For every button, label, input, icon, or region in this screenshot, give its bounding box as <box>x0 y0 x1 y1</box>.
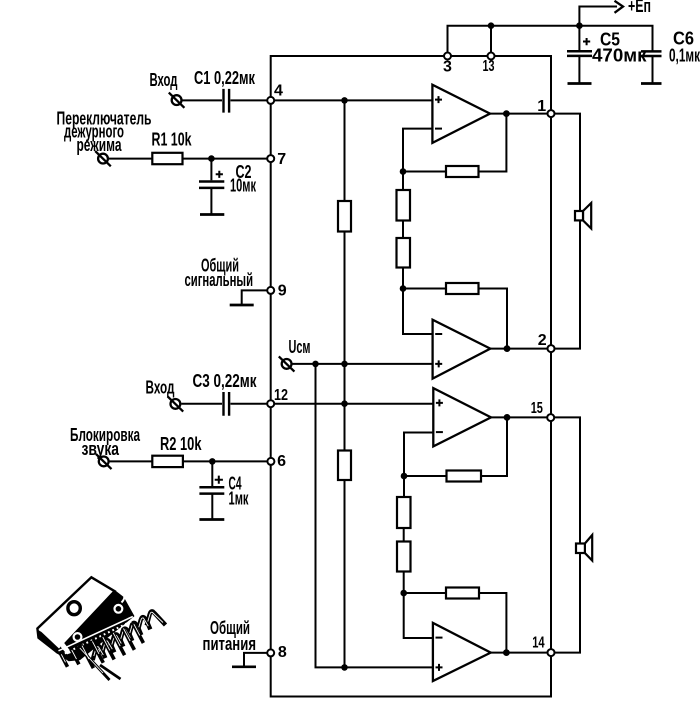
svg-text:+Еп: +Еп <box>628 0 651 16</box>
svg-text:режима: режима <box>77 135 123 155</box>
svg-text:6: 6 <box>277 453 286 470</box>
svg-text:470мк: 470мк <box>592 46 648 66</box>
svg-text:C1 0,22мк: C1 0,22мк <box>194 68 256 88</box>
svg-text:Вход: Вход <box>146 378 175 398</box>
svg-text:R2 10k: R2 10k <box>160 434 202 454</box>
svg-text:9: 9 <box>278 283 287 300</box>
svg-text:4: 4 <box>274 83 283 100</box>
svg-text:C3 0,22мк: C3 0,22мк <box>193 371 258 391</box>
svg-text:7: 7 <box>277 151 286 168</box>
svg-text:14: 14 <box>532 635 544 652</box>
svg-text:сигнальный: сигнальный <box>185 270 254 290</box>
svg-text:Uсм: Uсм <box>289 337 311 357</box>
svg-text:13: 13 <box>483 58 495 75</box>
svg-text:10мк: 10мк <box>230 175 257 195</box>
svg-text:Вход: Вход <box>150 70 178 90</box>
svg-text:15: 15 <box>531 400 543 417</box>
svg-text:питания: питания <box>203 634 257 654</box>
svg-text:звука: звука <box>82 439 120 459</box>
svg-text:12: 12 <box>274 387 288 404</box>
svg-text:3: 3 <box>443 59 452 76</box>
svg-text:1: 1 <box>537 98 546 115</box>
svg-text:1мк: 1мк <box>229 489 250 509</box>
svg-text:2: 2 <box>538 332 547 349</box>
svg-text:R1 10k: R1 10k <box>152 130 193 150</box>
svg-text:0,1мк: 0,1мк <box>669 46 700 66</box>
svg-text:8: 8 <box>278 644 287 661</box>
